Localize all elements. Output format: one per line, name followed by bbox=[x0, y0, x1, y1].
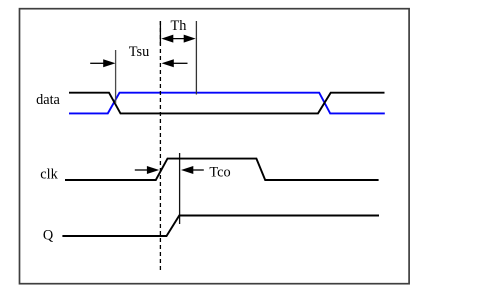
svg-text:clk: clk bbox=[40, 166, 58, 182]
label clk bbox=[40, 166, 58, 182]
label Q bbox=[43, 228, 54, 244]
dimension clk-edge right-pointing arrow bbox=[135, 166, 159, 174]
svg-text:data: data bbox=[36, 92, 60, 108]
node clock-edge dashed line bbox=[159, 21, 161, 272]
wire clk signal bbox=[65, 159, 379, 180]
node Q-valid tick bbox=[179, 153, 181, 224]
wire Q signal bbox=[62, 216, 379, 237]
label Tco bbox=[209, 164, 230, 180]
wire data black (high-low-high) bbox=[69, 93, 385, 114]
wire data blue (low-high-low) bbox=[69, 93, 385, 114]
node Th right boundary tick bbox=[195, 21, 197, 95]
dimension Tsu right-pointing arrow bbox=[90, 59, 115, 67]
svg-text:Th: Th bbox=[171, 18, 187, 34]
node Tsu data-valid tick bbox=[115, 50, 117, 104]
dimension Tsu left-pointing arrow bbox=[162, 59, 188, 67]
label Tsu bbox=[129, 44, 149, 60]
label Th bbox=[171, 18, 187, 34]
label data bbox=[36, 92, 60, 108]
svg-text:Tsu: Tsu bbox=[129, 44, 149, 60]
dimension Th double arrow bbox=[161, 35, 195, 43]
border frame bbox=[20, 9, 410, 284]
svg-text:Tco: Tco bbox=[209, 164, 230, 180]
svg-text:Q: Q bbox=[43, 228, 54, 244]
dimension Tco left-pointing arrow bbox=[181, 166, 204, 174]
